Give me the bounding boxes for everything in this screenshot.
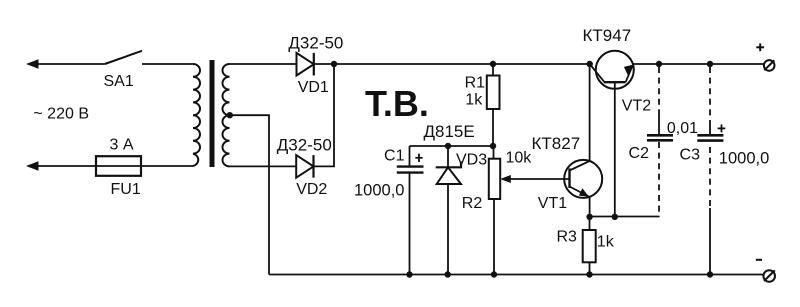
svg-text:3 А: 3 А xyxy=(110,137,134,154)
potentiometer R2 xyxy=(493,146,495,159)
capacitor C3 xyxy=(709,67,711,120)
svg-text:VD3: VD3 xyxy=(456,152,487,169)
svg-text:VD1: VD1 xyxy=(298,79,329,96)
capacitor C2 xyxy=(658,67,660,110)
node center tap xyxy=(227,112,233,118)
svg-text:VD2: VD2 xyxy=(296,181,327,198)
wire node line xyxy=(410,145,494,147)
svg-text:Д815Е: Д815Е xyxy=(424,122,475,141)
svg-text:10k: 10k xyxy=(506,150,533,167)
svg-text:C2: C2 xyxy=(629,145,650,162)
svg-text:R1: R1 xyxy=(465,74,486,91)
transistor VT2 xyxy=(596,51,634,89)
diode VD2 xyxy=(296,155,313,178)
transformer T primary winding xyxy=(193,64,200,166)
svg-text:SA1: SA1 xyxy=(104,73,134,90)
wire top rail right xyxy=(633,63,764,65)
svg-text:1000,0: 1000,0 xyxy=(719,149,769,167)
wire xyxy=(141,165,193,167)
wire xyxy=(314,64,335,166)
wire xyxy=(36,165,96,167)
wiper arrow of R2 xyxy=(508,178,570,180)
svg-text:КТ947: КТ947 xyxy=(583,26,632,45)
svg-text:R2: R2 xyxy=(462,195,483,212)
wire xyxy=(142,63,193,65)
wire xyxy=(230,165,297,167)
terminal + output xyxy=(764,60,775,71)
wire xyxy=(230,115,269,274)
transformer secondary winding xyxy=(223,64,230,166)
svg-text:C3: C3 xyxy=(680,147,701,164)
svg-text:FU1: FU1 xyxy=(111,181,141,198)
svg-text:КТ827: КТ827 xyxy=(532,134,581,153)
wire bottom rail xyxy=(269,274,764,276)
zener diode VD3 xyxy=(447,146,449,167)
arrow (mains input bottom) xyxy=(26,161,39,170)
wire xyxy=(36,63,105,65)
svg-text:~ 220 В: ~ 220 В xyxy=(33,105,89,122)
wire xyxy=(314,63,590,65)
svg-text:1k: 1k xyxy=(597,234,615,251)
svg-text:0,01: 0,01 xyxy=(667,120,698,137)
wire node line xyxy=(590,216,660,218)
transformer core xyxy=(210,60,215,167)
node xyxy=(331,61,337,67)
wire xyxy=(230,63,297,65)
svg-text:VT1: VT1 xyxy=(538,195,567,212)
svg-text:1000,0: 1000,0 xyxy=(354,181,404,199)
resistor R1 xyxy=(490,61,496,67)
transistor VT1 xyxy=(564,160,602,198)
svg-text:1k: 1k xyxy=(465,92,483,109)
svg-text:Т.В.: Т.В. xyxy=(365,83,429,124)
svg-text:Д32-50: Д32-50 xyxy=(277,136,332,155)
svg-text:C1: C1 xyxy=(384,148,405,165)
diode VD1 xyxy=(297,53,314,76)
fuse FU1 xyxy=(96,165,141,167)
node xyxy=(490,143,496,149)
svg-text:Д32-50: Д32-50 xyxy=(288,33,343,52)
svg-text:R3: R3 xyxy=(557,228,578,245)
terminal - output xyxy=(763,270,775,282)
switch SA1 xyxy=(105,51,142,64)
arrow (mains input top) xyxy=(26,59,39,68)
svg-text:VT2: VT2 xyxy=(622,98,651,115)
capacitor C1 xyxy=(409,146,411,166)
resistor R3 xyxy=(589,217,591,231)
node xyxy=(445,143,451,149)
